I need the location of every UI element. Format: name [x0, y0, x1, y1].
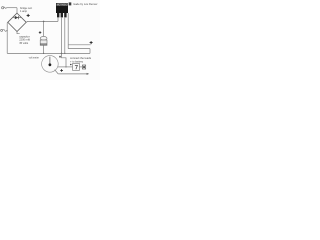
- background: [0, 0, 100, 80]
- top positive rail: bridge right corner to regulator input leg: [26, 20, 58, 23]
- wire: input pin down to top rail: [57, 17, 59, 21]
- svg-text:made by Lou Denver: made by Lou Denver: [73, 2, 98, 6]
- svg-text:+ to battery: + to battery: [70, 60, 84, 64]
- svg-text:connect the leads: connect the leads: [70, 56, 92, 60]
- plus label between meter leads: [60, 69, 63, 72]
- plus mark below rail junction: [59, 56, 61, 58]
- node: junction dot third pin / rail: [64, 53, 65, 54]
- regulator U1 label band: [56, 3, 67, 6]
- wire: right edge drop joining rails: [89, 49, 91, 54]
- wire: bridge bottom corner leader: [17, 32, 20, 34]
- capacitor C1 bottom lead: [43, 45, 45, 53]
- meter M1 (circle): [42, 56, 59, 73]
- connector box glyph: [75, 65, 78, 69]
- regulator pin 2 stub: [61, 13, 63, 17]
- wire: top rail down to capacitor top: [43, 21, 45, 36]
- wire: tab lead down from package corner: [67, 13, 69, 45]
- wire: second output line: [68, 48, 90, 50]
- lower lead arrowhead: [87, 73, 90, 75]
- capacitor C1 (electrolytic can): top ellipse: [40, 36, 47, 40]
- svg-text:1 amp: 1 amp: [20, 9, 28, 13]
- plug inner mark: [83, 66, 85, 68]
- wire: bridge left corner down left side: [6, 23, 8, 54]
- wire: terminal 1 to corner above bridge: [6, 7, 17, 9]
- wire: meter lower terminal diagonal: [55, 70, 59, 74]
- AC tilde squiggle: [3, 30, 7, 32]
- plus label at output terminal: [90, 41, 93, 44]
- capacitor C1 dark band: [40, 43, 47, 45]
- node: junction dot cap lead / rail: [43, 53, 44, 54]
- diode inside bridge: triangle: [15, 16, 18, 19]
- wire: connector box to plug: [79, 66, 82, 68]
- regulator pin 1 stub: [57, 13, 59, 17]
- plug (small square): [82, 65, 85, 69]
- diode inside bridge: cathode bar: [18, 16, 20, 19]
- wire: meter lower lead: [58, 73, 87, 75]
- meter pivot: [49, 63, 52, 66]
- node: junction dot on meter upper lead: [65, 66, 66, 67]
- plus label at bridge + output: [27, 14, 30, 17]
- plus mark left of connector box: [70, 64, 72, 66]
- tilde at terminal 1: [4, 7, 7, 8]
- diode inside bridge: wire: [13, 17, 21, 19]
- AC input terminal 2 (left open circle): [1, 29, 3, 31]
- bridge rectifier BR1 (diamond): [8, 13, 26, 31]
- regulator pin 3 stub: [64, 13, 66, 17]
- junction dot tilde/vertical: [7, 30, 8, 31]
- wire: meter upper terminal to connector box: [58, 66, 72, 68]
- connector box: [73, 63, 80, 70]
- wire: corner down into bridge top corner: [16, 8, 18, 13]
- wire: +5V output line to terminal: [68, 44, 90, 46]
- svg-text:volt meter: volt meter: [29, 56, 39, 59]
- capacitor C1 body: [40, 40, 47, 45]
- bottom common rail: [7, 52, 90, 54]
- AC input terminal 1 (top-left open circle): [2, 7, 4, 9]
- node: junction dot ground pin / rail: [61, 53, 63, 55]
- meter needle: [49, 57, 51, 65]
- regulator U1 body (black TO-220): [56, 3, 68, 13]
- caption bullet top-right: [69, 2, 72, 5]
- plus label at capacitor: [39, 31, 42, 34]
- svg-text:35 volts: 35 volts: [19, 41, 29, 45]
- svg-text:MC7805CT: MC7805CT: [57, 4, 69, 6]
- wire: ground pin down to common rail: [61, 17, 63, 53]
- wire: common continues down, right, down to meter lead: [62, 53, 67, 67]
- wire: third pin down to common rail: [64, 17, 66, 53]
- wire: jog from output line down: [67, 45, 69, 49]
- node: junction dot on top rail above capacitor: [43, 21, 45, 23]
